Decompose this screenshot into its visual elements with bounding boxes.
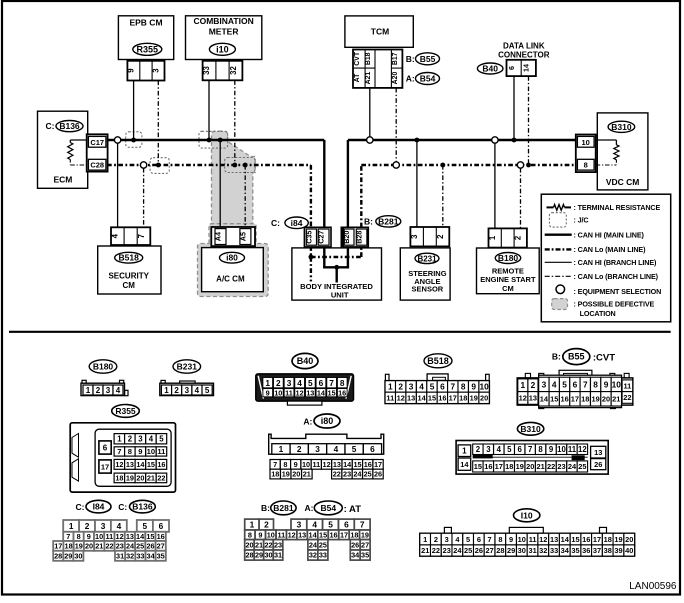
wire CAN HI main line: down into BIU C27 — [323, 140, 325, 227]
svg-text:10: 10 — [612, 379, 622, 389]
svg-text:20: 20 — [480, 394, 488, 403]
equipment selection circle: SECURITY CM Lo — [140, 162, 146, 168]
svg-text:2: 2 — [531, 380, 536, 390]
svg-text:4: 4 — [497, 445, 502, 454]
svg-text:11: 11 — [623, 381, 631, 390]
svg-text:9: 9 — [471, 381, 476, 391]
svg-text:2: 2 — [96, 386, 101, 395]
svg-text:A4: A4 — [214, 232, 223, 241]
svg-text:16: 16 — [484, 462, 492, 471]
svg-text:A21: A21 — [365, 72, 372, 85]
svg-text:B20: B20 — [342, 231, 351, 244]
svg-text:1: 1 — [86, 386, 91, 395]
svg-text:5: 5 — [352, 444, 357, 454]
svg-text:14: 14 — [343, 460, 352, 469]
svg-text:B54: B54 — [420, 74, 436, 84]
device box A/C CM — [202, 248, 264, 292]
legend: CAN Lo branch line sample — [545, 275, 572, 277]
svg-text:6: 6 — [440, 381, 445, 391]
svg-text:4: 4 — [297, 378, 302, 388]
svg-text:13: 13 — [126, 532, 134, 541]
equipment selection circle: REMOTE START Lo — [517, 162, 523, 168]
svg-text:13: 13 — [529, 394, 537, 403]
svg-text:5: 5 — [430, 381, 435, 391]
svg-text:C17: C17 — [90, 138, 104, 147]
svg-text:27: 27 — [361, 540, 369, 549]
svg-text:2: 2 — [476, 445, 481, 454]
svg-text:3: 3 — [409, 381, 414, 391]
svg-text:5: 5 — [507, 445, 512, 454]
wire CAN HI stub inside BIU — [336, 267, 338, 282]
svg-text:31: 31 — [274, 551, 282, 560]
svg-text:6: 6 — [573, 379, 578, 389]
node: DLC pin6 junction — [512, 138, 517, 143]
svg-text:28: 28 — [54, 551, 62, 560]
svg-text:5: 5 — [142, 521, 147, 531]
svg-text:24: 24 — [126, 542, 135, 551]
svg-text:8: 8 — [128, 447, 132, 456]
svg-text:25: 25 — [364, 470, 372, 479]
svg-text:30: 30 — [264, 551, 272, 560]
svg-text:24: 24 — [453, 546, 462, 555]
svg-text:15: 15 — [571, 535, 579, 544]
node: BIU Lo internal junction — [309, 255, 314, 260]
svg-text:26: 26 — [351, 540, 359, 549]
svg-text:LAN00596: LAN00596 — [629, 581, 677, 592]
svg-text:26: 26 — [146, 542, 154, 551]
svg-text:I10: I10 — [521, 510, 533, 520]
svg-text:3: 3 — [151, 68, 160, 73]
connector strip R355 pins 9/3 (EPB CM) — [127, 61, 164, 81]
equipment selection circle: TCM Lo — [393, 162, 399, 168]
node: J/C dot A/C A4 HI — [218, 138, 223, 143]
svg-text:i80: i80 — [226, 253, 238, 263]
svg-text:10: 10 — [267, 530, 275, 539]
svg-text:6: 6 — [370, 444, 375, 454]
svg-text:B18: B18 — [365, 52, 372, 65]
svg-text:8: 8 — [498, 535, 502, 544]
svg-text:9: 9 — [294, 460, 298, 469]
svg-text:14: 14 — [309, 530, 318, 539]
node: J/C dot A/C A5 Lo — [243, 163, 248, 168]
svg-text:24: 24 — [353, 470, 362, 479]
svg-text:: J/C: : J/C — [574, 216, 589, 225]
svg-text:15: 15 — [147, 460, 155, 469]
svg-text:9: 9 — [258, 530, 262, 539]
svg-text:METER: METER — [209, 27, 239, 37]
svg-text:32: 32 — [229, 66, 238, 75]
svg-text:7: 7 — [528, 445, 532, 454]
svg-text:7: 7 — [360, 520, 365, 530]
connector strip i84 pins C35/C27 (BIU) — [304, 227, 331, 247]
svg-text:30: 30 — [74, 551, 82, 560]
device box STEERING ANGLE SENSOR — [400, 248, 450, 300]
svg-text:1: 1 — [423, 535, 427, 544]
svg-text:TCM: TCM — [371, 27, 389, 37]
svg-text:A5: A5 — [238, 232, 247, 241]
device box ECM — [38, 111, 88, 188]
svg-text:: CAN Lo (BRANCH LINE): : CAN Lo (BRANCH LINE) — [574, 272, 659, 281]
svg-text:8: 8 — [593, 379, 598, 389]
svg-text:B40: B40 — [297, 356, 314, 366]
svg-text:2: 2 — [297, 444, 302, 454]
svg-text:18: 18 — [581, 395, 589, 404]
svg-text:2: 2 — [434, 535, 438, 544]
svg-text:12: 12 — [578, 445, 587, 454]
connector strip B231 pins 3/2 (STEERING ANGLE SENSOR) — [410, 227, 449, 246]
svg-text:B28: B28 — [355, 231, 364, 244]
svg-text:B:: B: — [406, 54, 415, 64]
connector table B55/B54 (TCM) — [353, 50, 402, 88]
svg-text:8: 8 — [584, 161, 588, 170]
svg-text:12: 12 — [288, 530, 296, 539]
svg-text:20: 20 — [526, 462, 534, 471]
svg-text:9: 9 — [127, 68, 136, 73]
svg-text:26: 26 — [475, 546, 483, 555]
wire branch CAN Lo: COMBINATION METER pin 32 — [234, 80, 236, 165]
legend: CAN HI branch line sample — [545, 261, 572, 263]
svg-text:24: 24 — [568, 462, 577, 471]
svg-text:1: 1 — [462, 447, 467, 456]
svg-text:12: 12 — [116, 532, 124, 541]
svg-text:1: 1 — [488, 235, 497, 240]
svg-text:14: 14 — [317, 389, 326, 398]
svg-text:22: 22 — [547, 462, 555, 471]
svg-text:6: 6 — [159, 521, 164, 531]
svg-text:21: 21 — [421, 546, 429, 555]
wire branch CAN Lo: STEERING ANGLE SENSOR pin 2 — [442, 165, 444, 227]
svg-text:R355: R355 — [137, 44, 159, 54]
svg-text:11: 11 — [106, 532, 114, 541]
wire branch CAN Lo: TCM pin A20/B17 — [395, 88, 397, 162]
svg-text:15: 15 — [328, 389, 336, 398]
svg-text:10: 10 — [302, 460, 310, 469]
svg-text:CONNECTOR: CONNECTOR — [498, 51, 550, 60]
wire CAN Lo main line: ECM C28 to BIU C35 — [107, 164, 311, 166]
svg-text:10: 10 — [518, 535, 526, 544]
svg-text:9: 9 — [604, 379, 609, 389]
svg-text:9: 9 — [138, 447, 142, 456]
svg-text:B55: B55 — [568, 352, 585, 362]
svg-text:15: 15 — [550, 395, 558, 404]
svg-text:14: 14 — [522, 64, 531, 72]
svg-text:CM: CM — [502, 284, 514, 293]
svg-text:SECURITY: SECURITY — [108, 272, 149, 281]
svg-text:B136: B136 — [132, 502, 153, 512]
svg-text:25: 25 — [464, 546, 472, 555]
svg-text:14: 14 — [136, 460, 145, 469]
connector strip C17/C28 (ECM) — [87, 134, 108, 171]
svg-text:10: 10 — [557, 445, 566, 454]
svg-text:33: 33 — [550, 546, 558, 555]
wire branch CAN HI: A/C CM pin A4 — [219, 140, 221, 229]
connector strip 10/8 (VDC CM) — [576, 135, 596, 173]
svg-text:7: 7 — [583, 379, 588, 389]
svg-text:21: 21 — [612, 395, 620, 404]
svg-text:22: 22 — [105, 542, 113, 551]
svg-text:6: 6 — [507, 66, 516, 70]
svg-text:23: 23 — [557, 462, 565, 471]
svg-text:15: 15 — [353, 460, 361, 469]
svg-text:3: 3 — [287, 378, 292, 388]
svg-text:i84: i84 — [291, 218, 303, 228]
svg-text:B310: B310 — [611, 122, 632, 132]
svg-text:3: 3 — [315, 444, 320, 454]
svg-text:3: 3 — [297, 520, 302, 530]
svg-text:21: 21 — [147, 474, 155, 483]
legend: terminal resistance symbol — [554, 205, 565, 211]
svg-text:7: 7 — [450, 381, 455, 391]
svg-text:32: 32 — [126, 551, 134, 560]
equipment selection circle: TCM HI — [367, 137, 373, 143]
svg-text:14: 14 — [136, 532, 145, 541]
svg-text:25: 25 — [136, 542, 144, 551]
legend: equipment selection symbol — [556, 285, 565, 294]
svg-text:16: 16 — [157, 460, 165, 469]
wire branch CAN HI: REMOTE ENGINE START CM pin 1 — [494, 143, 496, 229]
svg-text::CVT: :CVT — [593, 352, 615, 363]
svg-text:19: 19 — [614, 535, 622, 544]
svg-text:B136: B136 — [59, 121, 80, 131]
svg-text:30: 30 — [518, 546, 526, 555]
svg-text:17: 17 — [54, 542, 62, 551]
node: J/C dot EPB Lo — [156, 163, 161, 168]
svg-text:2: 2 — [128, 435, 133, 444]
svg-text:18: 18 — [65, 542, 73, 551]
svg-text:29: 29 — [64, 551, 72, 560]
svg-text:34: 34 — [351, 551, 360, 560]
svg-text:26: 26 — [374, 470, 382, 479]
connector view R355 (EPB CM) — [112, 405, 140, 418]
svg-text:ENGINE START: ENGINE START — [480, 275, 536, 284]
svg-text:19: 19 — [470, 394, 478, 403]
svg-text:13: 13 — [550, 535, 558, 544]
connector strip B518 pins 4/7 (SECURITY CM) — [111, 227, 150, 245]
svg-text:19: 19 — [516, 462, 524, 471]
svg-text:B:: B: — [552, 352, 561, 362]
svg-text:3: 3 — [101, 521, 106, 531]
svg-text:20: 20 — [602, 395, 610, 404]
svg-text:B180: B180 — [498, 253, 519, 263]
svg-text:18: 18 — [505, 462, 513, 471]
svg-text:17: 17 — [449, 394, 457, 403]
svg-text:10: 10 — [479, 381, 489, 391]
svg-text:14: 14 — [460, 460, 469, 469]
svg-text:10: 10 — [95, 532, 103, 541]
wire branch CAN HI: DATA LINK CONNECTOR pin 6 — [513, 76, 515, 140]
connector strip i80 pins A4/A5 (A/C CM) — [211, 227, 255, 246]
wire CAN Lo main line: BIU B28 up — [360, 165, 362, 227]
svg-text:19: 19 — [361, 530, 369, 539]
svg-text:C35: C35 — [304, 231, 313, 244]
svg-text:6: 6 — [477, 535, 481, 544]
svg-text:13: 13 — [126, 460, 134, 469]
svg-text:B231: B231 — [417, 254, 437, 263]
J/C junction box (EPB CAN HI) — [126, 132, 142, 148]
svg-text:15: 15 — [474, 462, 482, 471]
svg-text:12: 12 — [519, 394, 527, 403]
svg-text:B281: B281 — [378, 216, 399, 226]
svg-text:32: 32 — [539, 546, 547, 555]
svg-text:COMBINATION: COMBINATION — [193, 16, 253, 26]
svg-text:9: 9 — [509, 535, 513, 544]
svg-text:10: 10 — [582, 138, 590, 147]
svg-text:SENSOR: SENSOR — [412, 285, 444, 294]
svg-text:22: 22 — [333, 470, 341, 479]
svg-text:7: 7 — [117, 447, 121, 456]
svg-text:35: 35 — [361, 551, 369, 560]
connector view B518 (security CM) — [424, 354, 452, 368]
svg-text:19: 19 — [591, 395, 599, 404]
svg-text:13: 13 — [407, 394, 415, 403]
svg-text:17: 17 — [495, 462, 503, 471]
svg-text:29: 29 — [255, 551, 263, 560]
legend: possible defective location symbol — [552, 299, 568, 310]
wire branch CAN HI: EPB CM pin 9 — [133, 81, 135, 141]
svg-text:37: 37 — [593, 546, 601, 555]
svg-text:8: 8 — [283, 460, 287, 469]
svg-text:6: 6 — [518, 445, 523, 454]
svg-text:: CAN Lo (MAIN LINE): : CAN Lo (MAIN LINE) — [574, 245, 647, 254]
svg-text:4: 4 — [195, 386, 200, 395]
legend: J/C symbol — [549, 213, 566, 227]
wire CAN HI main line: BIU B20 up — [347, 140, 349, 227]
svg-text:16: 16 — [560, 395, 568, 404]
svg-text:C28: C28 — [90, 161, 104, 170]
svg-text:A/C CM: A/C CM — [216, 275, 245, 284]
device box BODY INTEGRATED UNIT — [292, 248, 382, 300]
svg-text:8: 8 — [248, 530, 252, 539]
svg-text:C:: C: — [46, 121, 55, 131]
wire branch CAN Lo: A/C CM pin A5 — [244, 165, 246, 229]
svg-text:3: 3 — [486, 445, 491, 454]
svg-text:4: 4 — [117, 521, 122, 531]
svg-text:REMOTE: REMOTE — [492, 267, 524, 276]
svg-text:4: 4 — [116, 386, 121, 395]
svg-text:3: 3 — [410, 234, 419, 239]
svg-text:19: 19 — [282, 470, 290, 479]
svg-text:3: 3 — [106, 386, 111, 395]
wire branch CAN Lo: EPB CM pin 3 — [157, 81, 159, 166]
svg-text:C:: C: — [118, 502, 127, 512]
connector view B310 (VDC CM) — [517, 422, 543, 435]
svg-text:7: 7 — [66, 532, 70, 541]
device box COMBINATION METER — [186, 16, 262, 60]
svg-text:C:: C: — [76, 502, 85, 512]
svg-text:2: 2 — [276, 378, 281, 388]
svg-text:14: 14 — [540, 395, 549, 404]
svg-text:16: 16 — [157, 532, 165, 541]
svg-text:40: 40 — [625, 546, 633, 555]
svg-text:1: 1 — [520, 380, 525, 390]
svg-text:7: 7 — [488, 535, 492, 544]
svg-text:16: 16 — [438, 394, 446, 403]
svg-text:22: 22 — [157, 474, 165, 483]
svg-text:18: 18 — [115, 474, 123, 483]
svg-text:22: 22 — [623, 393, 631, 402]
svg-text:9: 9 — [87, 532, 91, 541]
svg-text:11: 11 — [529, 535, 537, 544]
device box EPB CM — [118, 16, 173, 60]
svg-text:17: 17 — [571, 395, 579, 404]
svg-text:18: 18 — [271, 470, 279, 479]
svg-text:LOCATION: LOCATION — [580, 309, 616, 318]
svg-text:29: 29 — [507, 546, 515, 555]
legend box — [541, 194, 670, 322]
svg-text:1: 1 — [250, 520, 255, 530]
svg-text:B:: B: — [261, 503, 270, 513]
connector view B231 (steering angle sensor) — [173, 360, 201, 373]
svg-text:3: 3 — [445, 535, 449, 544]
svg-text:8: 8 — [340, 378, 345, 388]
svg-text:C27: C27 — [317, 231, 326, 244]
svg-text:3: 3 — [138, 435, 143, 444]
svg-text:22: 22 — [264, 540, 272, 549]
svg-text:5: 5 — [328, 520, 333, 530]
svg-text:4: 4 — [552, 379, 557, 389]
svg-text:17: 17 — [101, 463, 109, 472]
svg-text:4: 4 — [334, 444, 339, 454]
svg-text:4: 4 — [111, 233, 120, 238]
terminal resistor inside ECM — [70, 139, 88, 141]
svg-text:15: 15 — [428, 394, 436, 403]
wire CAN HI main line: ECM C17 to BIU C27 — [107, 139, 324, 141]
svg-text:36: 36 — [582, 546, 590, 555]
svg-text:27: 27 — [157, 542, 165, 551]
node: J/C dot meter 33 HI — [207, 138, 212, 143]
svg-text:14: 14 — [417, 394, 426, 403]
svg-text:25: 25 — [319, 540, 327, 549]
svg-text:8: 8 — [461, 381, 466, 391]
svg-text:19: 19 — [75, 542, 83, 551]
connector strip B180 pins 1/2 (REMOTE ENGINE START CM) — [489, 228, 527, 247]
svg-text:31: 31 — [116, 551, 124, 560]
equipment selection circle: SECURITY CM HI — [114, 137, 120, 143]
svg-text:B310: B310 — [520, 424, 541, 434]
svg-text:12: 12 — [115, 460, 123, 469]
svg-text:35: 35 — [571, 546, 579, 555]
svg-text:13: 13 — [306, 389, 314, 398]
svg-text:17: 17 — [593, 535, 601, 544]
svg-text:16: 16 — [582, 535, 590, 544]
svg-text:I84: I84 — [93, 502, 105, 512]
svg-text:13: 13 — [333, 460, 341, 469]
svg-text:R355: R355 — [115, 406, 136, 416]
svg-text:5: 5 — [205, 386, 210, 395]
svg-text:28: 28 — [496, 546, 504, 555]
svg-text:5: 5 — [562, 379, 567, 389]
svg-text:1: 1 — [388, 381, 393, 391]
svg-text:11: 11 — [312, 460, 320, 469]
wire CAN HI inside BIU: C27 to B20 — [323, 246, 325, 267]
svg-text:18: 18 — [604, 535, 612, 544]
svg-text:18: 18 — [350, 530, 358, 539]
wire branch CAN Lo: DATA LINK CONNECTOR pin 14 — [528, 76, 530, 165]
svg-text:2: 2 — [514, 235, 523, 240]
wire branch CAN Lo: REMOTE ENGINE START CM pin 2 — [520, 168, 522, 229]
svg-text:DATA LINK: DATA LINK — [503, 42, 545, 51]
svg-text:4: 4 — [419, 381, 424, 391]
svg-text:34: 34 — [147, 551, 156, 560]
svg-text:9: 9 — [266, 389, 270, 398]
svg-text:A:: A: — [305, 503, 314, 513]
svg-text:EPB CM: EPB CM — [129, 18, 162, 28]
svg-text:12: 12 — [323, 460, 331, 469]
node: J/C dot meter 32 Lo — [232, 163, 237, 168]
svg-text:18: 18 — [459, 394, 467, 403]
svg-text:33: 33 — [136, 551, 144, 560]
connector strip B281 pins B20/B28 (BIU) — [341, 227, 368, 247]
